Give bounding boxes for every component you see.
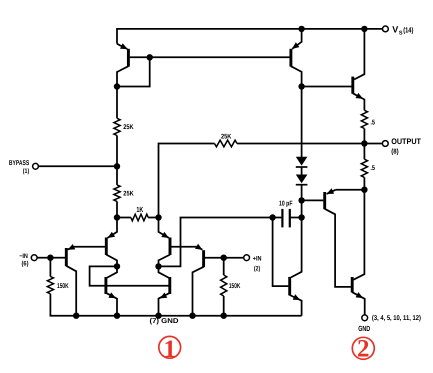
svg-text:1: 1 xyxy=(163,336,176,363)
svg-text:V: V xyxy=(392,25,398,35)
svg-text:25K: 25K xyxy=(221,133,231,140)
svg-text:150K: 150K xyxy=(229,283,240,290)
svg-text:150K: 150K xyxy=(57,283,69,290)
svg-text:2: 2 xyxy=(357,336,370,363)
svg-text:25K: 25K xyxy=(123,191,133,198)
svg-text:−IN: −IN xyxy=(19,253,28,260)
svg-text:(8): (8) xyxy=(391,147,399,155)
svg-text:OUTPUT: OUTPUT xyxy=(391,137,421,146)
svg-text:25K: 25K xyxy=(123,124,133,131)
svg-text:.5: .5 xyxy=(370,120,375,127)
svg-text:+IN: +IN xyxy=(253,256,262,263)
svg-text:(1): (1) xyxy=(23,168,29,175)
svg-text:10 pF: 10 pF xyxy=(279,200,293,207)
svg-text:(14): (14) xyxy=(403,26,414,35)
svg-text:BYPASS: BYPASS xyxy=(9,160,30,167)
svg-text:(6): (6) xyxy=(22,260,29,267)
svg-text:1K: 1K xyxy=(136,205,143,214)
svg-text:(3, 4, 5, 10, 11, 12): (3, 4, 5, 10, 11, 12) xyxy=(372,314,421,322)
svg-text:(2): (2) xyxy=(254,266,260,273)
svg-text:(7) GND: (7) GND xyxy=(150,317,179,325)
svg-text:GND: GND xyxy=(358,324,370,333)
svg-text:.5: .5 xyxy=(370,165,375,172)
